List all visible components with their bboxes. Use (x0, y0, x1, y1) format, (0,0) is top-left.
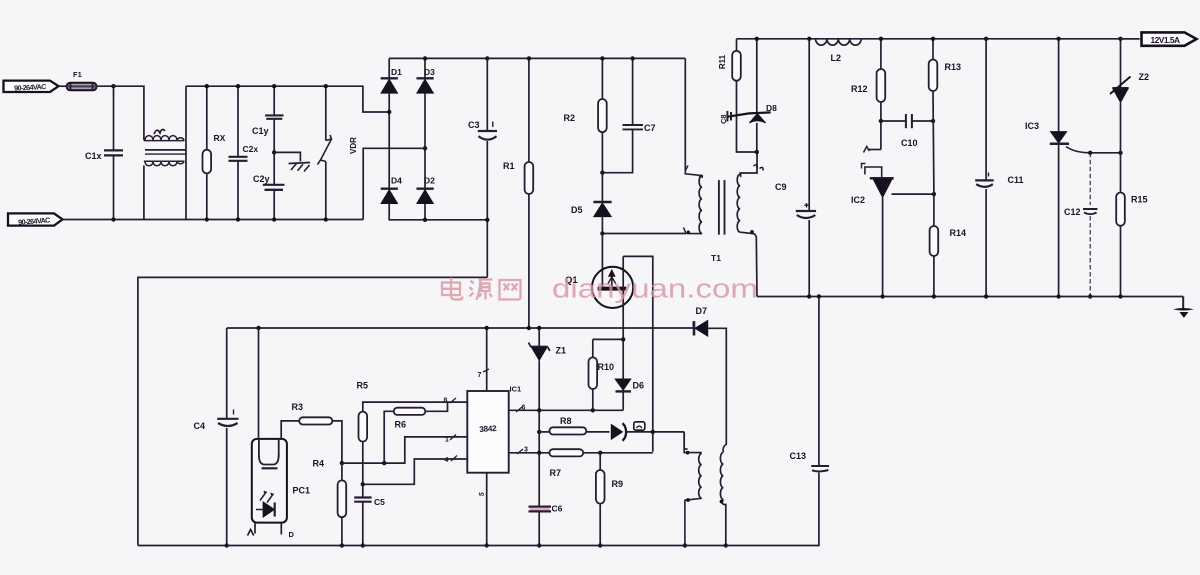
resistor R10 (589, 337, 626, 410)
svg-text:C4: C4 (194, 421, 206, 431)
zener Z3 (611, 422, 684, 441)
node bridge minus (423, 218, 427, 222)
node top rail at C1x (111, 84, 115, 88)
svg-text:R9: R9 (612, 479, 624, 489)
capacitor C4 electrolytic (194, 328, 239, 546)
wire fuse to C1x node (97, 85, 114, 87)
capacitor C3 electrolytic (468, 58, 497, 277)
resistor R2 (564, 56, 607, 173)
resistor R8 (539, 416, 609, 435)
secondary top rail (737, 38, 1140, 40)
op-amp U1 PWM IC 3842 (467, 385, 521, 473)
svg-text:C9: C9 (775, 182, 787, 192)
svg-text:C6: C6 (552, 504, 563, 514)
aux winding left (684, 432, 702, 546)
resistor R14 (930, 194, 966, 296)
node C4 bottom (225, 543, 229, 547)
diode D5 (571, 173, 612, 234)
node R6 drop (382, 461, 386, 465)
svg-text:VDR: VDR (349, 137, 358, 154)
svg-text:R1: R1 (503, 161, 515, 171)
node R1 bottom (527, 326, 531, 330)
zener Z2 (1110, 37, 1149, 153)
svg-text:R8: R8 (560, 416, 572, 426)
aux winding right (720, 444, 727, 546)
svg-text:IC3: IC3 (1025, 121, 1039, 131)
wire R8 line to aux winding (684, 432, 687, 449)
pin 3 tick (517, 447, 528, 455)
wire top rail to primary (684, 58, 686, 170)
resistor R9 (596, 453, 623, 548)
IC2 ref elbow (862, 147, 882, 179)
node Q1 drain (600, 231, 604, 235)
resistor R5 (357, 381, 468, 485)
wire PC1 collector drop (258, 328, 260, 439)
node bottom rail at C1x (111, 217, 115, 221)
VCC wire (227, 327, 694, 329)
node aux right gnd (724, 543, 728, 547)
node R8 left (537, 430, 541, 434)
svg-text:IC2: IC2 (851, 195, 865, 205)
node R10 bottom (591, 408, 595, 412)
node snubber to secondary (755, 150, 759, 154)
node aux left gnd (683, 543, 687, 547)
node snubber bottom (600, 171, 604, 175)
wire D1 to AC1 node (388, 93, 390, 189)
bridge left column upper (388, 58, 390, 78)
pin 7 VCC drop (478, 326, 490, 391)
svg-text:R12: R12 (851, 84, 868, 94)
node gnd IC2 (880, 294, 884, 298)
svg-text:D5: D5 (571, 205, 583, 215)
svg-text:R7: R7 (550, 468, 562, 478)
svg-text:3842: 3842 (479, 424, 497, 434)
svg-text:D: D (289, 530, 295, 539)
svg-text:D2: D2 (424, 176, 435, 186)
node ref node right (1118, 151, 1122, 155)
svg-text:D7: D7 (696, 306, 708, 316)
resistor R12 (851, 37, 885, 150)
bridge right column upper (424, 58, 426, 78)
fuse F1 (67, 70, 97, 90)
svg-text:4: 4 (445, 457, 449, 464)
node gnd R15 (1118, 294, 1122, 298)
node gnd C13 (817, 294, 821, 298)
svg-text:C10: C10 (901, 138, 918, 148)
capacitor C1x (85, 86, 123, 219)
diode D3 (417, 67, 436, 93)
node Z1 line at sense wire (537, 451, 541, 455)
bridge left column lower (389, 204, 487, 220)
inductor L2 (816, 39, 862, 63)
node AC2 (423, 146, 427, 150)
zener Z1 (529, 326, 567, 411)
Q1 top loop wire (623, 256, 653, 451)
svg-text:L2: L2 (831, 53, 842, 63)
resistor R11 (718, 39, 757, 152)
node AC1 (387, 110, 391, 114)
svg-text:dianyuan.com: dianyuan.com (552, 274, 758, 304)
capacitor C10 (881, 114, 933, 148)
ground symbol output (1173, 297, 1194, 318)
capacitor C5 (354, 484, 385, 547)
svg-text:RX: RX (214, 133, 226, 143)
svg-text:8: 8 (444, 398, 448, 405)
bridge top rail (389, 57, 685, 59)
Q1 gate-drive vertical (622, 256, 624, 410)
svg-text:PC1: PC1 (293, 486, 311, 496)
node FB junction (340, 461, 344, 465)
resistor R4 (313, 459, 347, 548)
pin6 gate wire (509, 409, 624, 411)
node pin4 RC junction (361, 482, 365, 486)
resistor R6 (384, 402, 447, 463)
resistor R7 (549, 449, 583, 478)
diode D1 (381, 67, 402, 93)
svg-text:T1: T1 (711, 253, 721, 263)
pin3 sense wire (509, 452, 653, 454)
svg-text:R10: R10 (598, 362, 615, 372)
wire Z1 line continues (538, 410, 540, 453)
node gnd R14 (932, 294, 936, 298)
svg-text:D4: D4 (391, 176, 402, 186)
top rail segment 2 (186, 86, 389, 112)
resistor R15 (1116, 153, 1147, 297)
svg-text:C11: C11 (1008, 175, 1024, 185)
AC input terminal L (90-264VAC) (4, 81, 59, 93)
pin 2 tick (445, 435, 456, 444)
node C3 top (485, 56, 489, 60)
primary ground long wire (138, 277, 487, 545)
capacitor C2x (229, 84, 259, 222)
svg-text:12V1.5A: 12V1.5A (1150, 35, 1180, 45)
svg-text:R5: R5 (357, 381, 369, 391)
capacitor C6 (529, 453, 563, 548)
svg-text:C1y: C1y (252, 126, 269, 136)
FB wire to pin2 (342, 437, 467, 463)
wire ref node (1090, 152, 1120, 154)
pin 8 tick (444, 398, 457, 405)
svg-text:Z2: Z2 (1139, 72, 1150, 82)
pin4 wire (363, 459, 468, 484)
capacitor C2y (253, 152, 284, 221)
common-mode choke L1 (144, 86, 186, 219)
diode D2 (417, 176, 436, 204)
shunt regulator IC2 (851, 178, 894, 296)
svg-text:F1: F1 (73, 70, 82, 79)
diode D6 (615, 379, 644, 392)
wire IC2 to divider (892, 193, 934, 195)
wire AC2 from bottom rail (363, 148, 425, 219)
node rail at snubber (755, 37, 759, 41)
bridge right column lower (424, 204, 426, 220)
capacitor C11 electrolytic (975, 39, 1023, 297)
secondary phasing marks (754, 165, 764, 171)
shunt IC3 (1025, 39, 1090, 297)
node R9 top (598, 451, 602, 455)
node divider mid (932, 192, 936, 196)
svg-text:R13: R13 (945, 62, 962, 72)
capacitor C7 (602, 56, 655, 173)
node CY midpoint (272, 150, 276, 154)
varistor VDR (318, 84, 359, 222)
resistor R1 (503, 56, 533, 328)
svg-text:D6: D6 (633, 381, 645, 391)
capacitor C12 (1064, 153, 1098, 297)
node C11 top (984, 37, 988, 41)
svg-text:D8: D8 (766, 103, 777, 113)
node gnd C9 (807, 294, 811, 298)
svg-text:Z1: Z1 (556, 346, 567, 356)
svg-text:90-264VAC: 90-264VAC (14, 82, 46, 93)
svg-text:C12: C12 (1064, 207, 1081, 217)
node Z1 at gate wire (537, 408, 541, 412)
node IC3 top (1056, 37, 1060, 41)
capacitor C1y (252, 84, 284, 152)
svg-text:IC1: IC1 (510, 385, 522, 394)
svg-text:R6: R6 (395, 420, 407, 430)
wire D3 to AC2 node (424, 93, 426, 189)
node gnd C11 (984, 294, 988, 298)
diode D8 with bar line (727, 39, 777, 152)
resistor R13 (929, 37, 961, 195)
node gnd IC3 (1056, 294, 1060, 298)
pin 4 tick (445, 456, 458, 465)
node C10 left (879, 119, 883, 123)
secondary ground rail (757, 296, 1183, 298)
svg-text:R11: R11 (718, 54, 727, 69)
wire drain to primary (602, 228, 686, 234)
svg-text:C5: C5 (374, 497, 385, 507)
transformer T1 (685, 152, 757, 297)
earth ground symbol (289, 163, 311, 172)
wire to earth (274, 152, 300, 161)
svg-text:C1x: C1x (85, 151, 102, 161)
node top rail at D3 (423, 56, 427, 60)
transistor Q1 MOSFET (565, 234, 633, 309)
optocoupler PC1 (248, 439, 311, 539)
wire terminal-L to fuse (60, 85, 67, 87)
capacitor C9 electrolytic (775, 39, 816, 297)
node sense loop joins (651, 430, 655, 434)
svg-text:C3: C3 (468, 120, 480, 130)
svg-text:R4: R4 (313, 459, 325, 469)
diode D7 (693, 306, 726, 445)
svg-text:D1: D1 (391, 67, 402, 77)
node C12 gnd (1088, 294, 1092, 298)
svg-text:C13: C13 (790, 451, 807, 461)
node PC1 drop (256, 326, 260, 330)
output terminal 12V1.5A (1121, 32, 1197, 45)
capacitor C13 Y-cap (138, 297, 829, 546)
svg-text:C2x: C2x (243, 144, 259, 154)
pin 5 GND drop (479, 473, 489, 548)
node C3 at bridge minus rail (485, 218, 489, 222)
bottom AC rail (63, 219, 363, 221)
svg-text:C8: C8 (719, 114, 728, 124)
pin 6 tick (516, 405, 526, 413)
svg-text:R3: R3 (292, 402, 304, 412)
watermark (442, 274, 758, 304)
svg-text:1: 1 (445, 437, 449, 444)
resistor RX (203, 84, 226, 222)
svg-text:R2: R2 (564, 113, 576, 123)
svg-text:7: 7 (478, 372, 482, 379)
svg-text:C7: C7 (644, 123, 656, 133)
node ref node left (1088, 151, 1092, 155)
node C10 right (931, 119, 935, 123)
wire C1x node to choke corner (114, 86, 144, 140)
svg-text:C2y: C2y (253, 174, 270, 184)
svg-text:R14: R14 (950, 228, 967, 238)
capacitor C8 (719, 111, 731, 124)
node C9 top (807, 37, 811, 41)
resistor R3 (281, 402, 342, 463)
AC input terminal N (90-264VAC) (8, 213, 63, 226)
svg-text:R15: R15 (1131, 195, 1148, 205)
svg-text:D3: D3 (424, 67, 435, 77)
diode D4 (381, 176, 402, 204)
